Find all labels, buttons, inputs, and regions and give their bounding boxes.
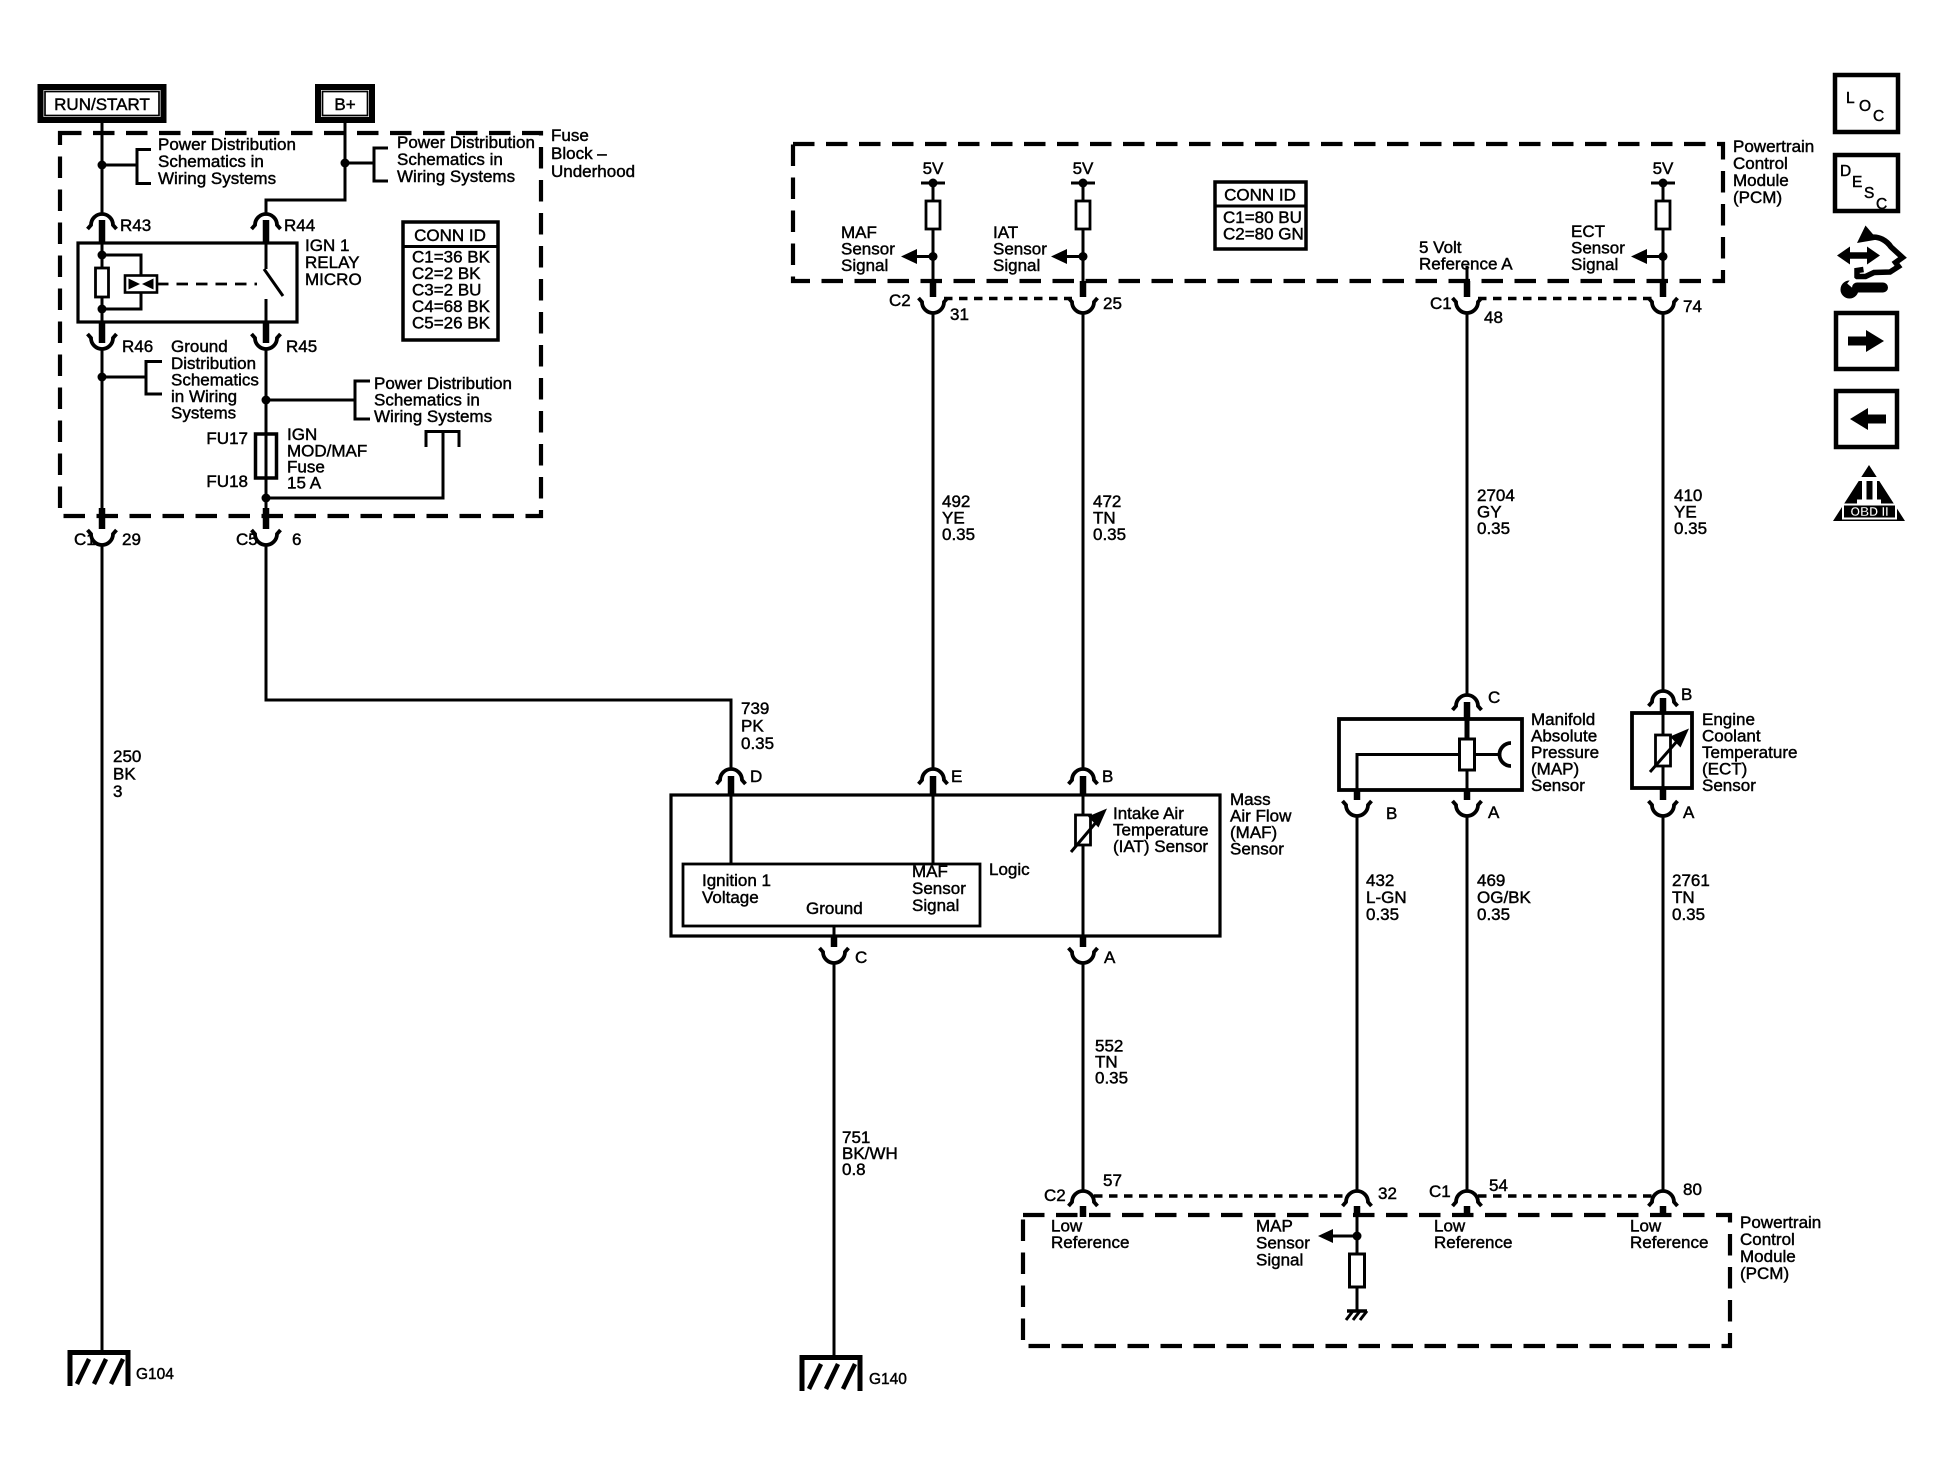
MAF logic box (683, 864, 980, 926)
svg-text:A: A (1104, 948, 1116, 967)
svg-text:0.35: 0.35 (1366, 905, 1399, 924)
svg-text:C2=80 GN: C2=80 GN (1223, 225, 1304, 244)
svg-text:0.35: 0.35 (1095, 1069, 1128, 1088)
svg-text:3: 3 (113, 782, 122, 801)
connector R44 (252, 214, 281, 229)
svg-text:C2: C2 (1044, 1186, 1066, 1205)
svg-text:74: 74 (1683, 297, 1702, 316)
connector C1 pin 48 (1464, 281, 1471, 297)
svg-text:Signal: Signal (912, 896, 959, 915)
svg-text:L: L (1846, 90, 1855, 107)
icon wrench (1841, 277, 1884, 299)
svg-text:0.35: 0.35 (1477, 905, 1510, 924)
junction ECT signal tap (1659, 252, 1668, 261)
svg-text:Reference: Reference (1630, 1233, 1708, 1252)
wire E to logic box (932, 795, 935, 864)
connector ECT pin A (1660, 788, 1667, 800)
svg-text:C: C (1873, 108, 1884, 125)
svg-text:FU17: FU17 (206, 429, 248, 448)
MAP sensor box (1339, 719, 1522, 790)
svg-text:Signal: Signal (841, 256, 888, 275)
connector pin 74 (1660, 281, 1667, 297)
svg-text:0.35: 0.35 (1477, 519, 1510, 538)
svg-text:Reference: Reference (1051, 1233, 1129, 1252)
wire 739 PK 0.35 from C5 to MAF pin D (266, 545, 731, 769)
CONN ID table (PCM) (1215, 182, 1306, 249)
PCM dashed enclosure (bottom) (1023, 1215, 1730, 1346)
svg-text:0.35: 0.35 (1093, 525, 1126, 544)
wire tap over to upper power bracket (266, 433, 443, 498)
svg-text:E: E (951, 767, 962, 786)
svg-text:Reference: Reference (1434, 1233, 1512, 1252)
wire D to logic box (730, 795, 733, 864)
svg-text:Sensor: Sensor (1702, 776, 1756, 795)
connector pin 25 (1080, 281, 1087, 297)
connector MAP pin C (1453, 695, 1482, 710)
svg-text:Sensor: Sensor (1230, 840, 1284, 859)
junction fuse output tap (262, 494, 271, 503)
svg-text:Signal: Signal (1571, 255, 1618, 274)
wire resistor to internal ground (1356, 1287, 1359, 1311)
junction on RUN/START feed (98, 161, 107, 170)
MAP internal ground return wire (1357, 755, 1459, 791)
wire junction to ground bracket (102, 376, 146, 379)
svg-text:B: B (1102, 767, 1113, 786)
svg-text:D: D (750, 767, 762, 786)
wire Ground to pin C (833, 926, 836, 936)
relay coil feed wire (101, 243, 104, 268)
resistor pull-up MAF (926, 201, 940, 229)
wire 751 BK/WH 0.8 to G140 (833, 963, 836, 1357)
svg-text:CONN ID: CONN ID (414, 226, 486, 245)
junction on B+ feed (341, 159, 350, 168)
connector MAF pin E (919, 769, 948, 784)
svg-text:D: D (1840, 163, 1851, 180)
wire fuse to C5 (265, 478, 268, 512)
svg-text:Systems: Systems (171, 404, 236, 423)
wire 250 BK 3 to G104 (101, 545, 104, 1352)
internal chassis ground (1346, 1311, 1367, 1320)
svg-text:250: 250 (113, 747, 141, 766)
MAP internal output wire (1475, 753, 1500, 756)
svg-text:Wiring Systems: Wiring Systems (158, 169, 276, 188)
fuse block underhood dashed enclosure (60, 133, 541, 516)
svg-text:A: A (1683, 803, 1695, 822)
arrow IAT sensor signal (1065, 255, 1083, 258)
svg-text:Signal: Signal (993, 256, 1040, 275)
junction ground distribution tap (98, 373, 107, 382)
wire 432 L-GN 0.35 MAP B to PCM 32 (1356, 816, 1359, 1191)
resistor pull-up ECT (1656, 201, 1670, 229)
arrow ECT sensor signal (1645, 255, 1663, 258)
svg-text:Signal: Signal (1256, 1251, 1303, 1270)
wire 472 TN 0.35 pin25 to MAF pin B (1082, 313, 1085, 769)
svg-text:C: C (855, 948, 867, 967)
svg-text:Sensor: Sensor (1531, 776, 1585, 795)
svg-text:B: B (1386, 804, 1397, 823)
svg-text:O: O (1859, 98, 1871, 115)
connector MAF pin A (1080, 936, 1087, 947)
ECT thermistor (1662, 713, 1665, 735)
off-page bracket (power distribution lower) (355, 381, 370, 419)
connector MAF pin B (1069, 769, 1098, 784)
MAP internal feed wire (1465, 719, 1470, 739)
IAT thermistor (1076, 815, 1091, 845)
relay switch contact (265, 243, 268, 269)
icon OBD II triangle (1833, 465, 1905, 521)
svg-text:R44: R44 (284, 216, 315, 235)
junction MAP signal tap (1353, 1232, 1362, 1241)
node B+ power feed box (318, 87, 372, 120)
harness dotted link 31-25 (944, 297, 1072, 300)
svg-text:RUN/START: RUN/START (54, 95, 150, 114)
relay coil resistor (96, 268, 109, 297)
svg-text:15 A: 15 A (287, 474, 322, 493)
icon LOC box (1835, 75, 1898, 132)
off-page bracket (power distribution fuse tap) (426, 432, 459, 448)
5V supply node (ECT) (1651, 159, 1675, 201)
ground G140 (802, 1358, 907, 1392)
connector MAF pin D (717, 769, 746, 784)
svg-text:C5=26 BK: C5=26 BK (412, 314, 491, 333)
connector pin 80 (1649, 1191, 1678, 1206)
wire 5V reference to pin 48 (1466, 266, 1469, 281)
wire R46 down to C1 (101, 349, 104, 512)
junction IAT signal tap (1079, 252, 1088, 261)
junction MAF signal tap (929, 252, 938, 261)
svg-text:Voltage: Voltage (702, 888, 759, 907)
junction relay coil bottom (98, 305, 107, 314)
svg-text:Wiring Systems: Wiring Systems (397, 167, 515, 186)
svg-text:Wiring Systems: Wiring Systems (374, 407, 492, 426)
svg-text:739: 739 (741, 699, 769, 718)
svg-text:OBD II: OBD II (1850, 505, 1888, 519)
node RUN/START power feed box (41, 87, 164, 120)
wire RUN/START down to R43 (101, 120, 104, 214)
MAP diaphragm arc symbol (1500, 743, 1511, 766)
5V supply node (IAT) (1071, 159, 1095, 201)
connector MAP pin A (1464, 790, 1471, 800)
icon DESC box (1835, 155, 1898, 213)
ground G104 (70, 1353, 174, 1387)
svg-text:FU18: FU18 (206, 472, 248, 491)
svg-text:S: S (1864, 185, 1874, 202)
connector R43 (88, 214, 117, 229)
svg-text:0.8: 0.8 (842, 1160, 866, 1179)
junction relay coil top (98, 251, 107, 260)
svg-text:0.35: 0.35 (741, 734, 774, 753)
wire resistor to pin 25 (1082, 229, 1085, 281)
connector C1 pin 54 (1453, 1191, 1482, 1206)
svg-text:R45: R45 (286, 337, 317, 356)
relay solenoid valve symbol (125, 276, 157, 293)
connector ECT pin B (1649, 691, 1678, 706)
connector R46 (88, 334, 117, 349)
relay coil parallel branch wire (102, 255, 141, 275)
connector C2 pin 31 (930, 281, 937, 297)
svg-text:(PCM): (PCM) (1733, 188, 1782, 207)
svg-text:Block –: Block – (551, 144, 607, 163)
wire resistor to pin 31 (932, 229, 935, 281)
svg-text:6: 6 (292, 530, 301, 549)
svg-text:G140: G140 (869, 1371, 907, 1388)
wire junction to left reference bracket (102, 164, 137, 167)
svg-text:Logic: Logic (989, 860, 1030, 879)
harness dotted link 48-74 (1478, 297, 1652, 300)
svg-text:G104: G104 (136, 1366, 174, 1383)
resistor pull-up IAT (1076, 201, 1090, 229)
svg-text:32: 32 (1378, 1184, 1397, 1203)
svg-text:25: 25 (1103, 294, 1122, 313)
wire coil bottom (101, 297, 104, 322)
wire 2704 GY 0.35 pin48 to MAP pin C (1466, 313, 1469, 695)
svg-text:R43: R43 (120, 216, 151, 235)
wire 492 YE 0.35 pin31 to MAF pin E (932, 313, 935, 769)
connector C5 pin 6 (263, 508, 270, 529)
svg-text:E: E (1852, 174, 1862, 191)
connector MAP pin B (1354, 790, 1361, 800)
svg-text:5V: 5V (1653, 159, 1674, 178)
svg-text:0.35: 0.35 (1674, 519, 1707, 538)
svg-text:C: C (1876, 196, 1887, 213)
junction power distribution tap (262, 396, 271, 405)
svg-text:MICRO: MICRO (305, 270, 362, 289)
wire 469 OG/BK 0.35 MAP A to PCM 54 (1466, 816, 1469, 1191)
connector C1 pin 29 (99, 508, 106, 529)
svg-text:Underhood: Underhood (551, 162, 635, 181)
svg-text:(IAT) Sensor: (IAT) Sensor (1113, 837, 1208, 856)
svg-text:CONN ID: CONN ID (1224, 186, 1296, 205)
svg-text:0.35: 0.35 (1672, 905, 1705, 924)
CONN ID table (fuse block) (403, 222, 498, 340)
wire B+ down and over to R44 (266, 120, 345, 214)
wire pin 32 into PCM (1356, 1217, 1359, 1254)
svg-text:C2: C2 (889, 291, 911, 310)
svg-text:A: A (1488, 803, 1500, 822)
wire R45 down to fuse (265, 349, 268, 434)
PCM dashed enclosure (top) (793, 144, 1723, 281)
icon forward arrow box (1836, 313, 1897, 369)
connector R45 (252, 334, 281, 349)
resistor PCM low reference (1350, 1254, 1365, 1287)
icon back arrow box (1836, 391, 1897, 447)
off-page bracket (right power distribution) (374, 148, 388, 181)
svg-text:5V: 5V (1073, 159, 1094, 178)
wire junction to right reference bracket (345, 162, 374, 165)
svg-text:C5: C5 (236, 530, 258, 549)
svg-text:B+: B+ (334, 95, 355, 114)
svg-text:C1: C1 (1430, 294, 1452, 313)
connector pin 32 (1343, 1191, 1372, 1206)
svg-text:5V: 5V (923, 159, 944, 178)
svg-text:48: 48 (1484, 308, 1503, 327)
wire 410 YE 0.35 pin74 to ECT pin B (1662, 313, 1665, 690)
MAP capsule lower wire (1466, 770, 1469, 790)
ECT sensor box (1632, 713, 1692, 788)
svg-text:B: B (1681, 685, 1692, 704)
off-page bracket (ground distribution) (146, 362, 162, 395)
IAT thermistor wire (1082, 795, 1085, 815)
5V supply node (MAF) (921, 159, 945, 201)
svg-text:31: 31 (950, 305, 969, 324)
wire resistor to pin 74 (1662, 229, 1665, 281)
svg-text:80: 80 (1683, 1180, 1702, 1199)
MAP pressure capsule (1460, 739, 1475, 770)
svg-text:0.35: 0.35 (942, 525, 975, 544)
svg-text:R46: R46 (122, 337, 153, 356)
relay actuation dashed link (157, 283, 257, 286)
wire junction to power bracket (266, 399, 355, 402)
arrow MAF sensor signal (915, 255, 933, 258)
connector C2 pin 57 (1069, 1191, 1098, 1206)
relay K: IGN 1 RELAY MICRO box (78, 243, 297, 322)
svg-text:PK: PK (741, 717, 764, 736)
svg-text:C1: C1 (1429, 1182, 1451, 1201)
wire 2761 TN 0.35 ECT A to PCM 80 (1662, 816, 1665, 1191)
svg-text:29: 29 (122, 530, 141, 549)
svg-text:BK: BK (113, 765, 136, 784)
arrow MAP sensor signal (1332, 1235, 1357, 1238)
svg-text:57: 57 (1103, 1171, 1122, 1190)
harness dotted link 54-80 (1478, 1194, 1652, 1197)
off-page bracket (left power distribution) (137, 150, 151, 184)
fuse FU17/FU18 IGN MOD/MAF 15 A (265, 434, 268, 478)
icon vehicle data exchange (1837, 226, 1903, 277)
svg-text:(PCM): (PCM) (1740, 1264, 1789, 1283)
wire 552 TN 0.35 MAF pin A to PCM pin 57 (1082, 963, 1085, 1191)
svg-text:54: 54 (1489, 1176, 1508, 1195)
svg-text:Fuse: Fuse (551, 126, 589, 145)
svg-text:C1: C1 (74, 530, 96, 549)
harness dotted link 57-32 (1094, 1194, 1346, 1197)
MAF sensor box (671, 795, 1220, 936)
connector MAF pin C (831, 936, 838, 947)
svg-text:Ground: Ground (806, 899, 863, 918)
svg-text:C: C (1488, 688, 1500, 707)
